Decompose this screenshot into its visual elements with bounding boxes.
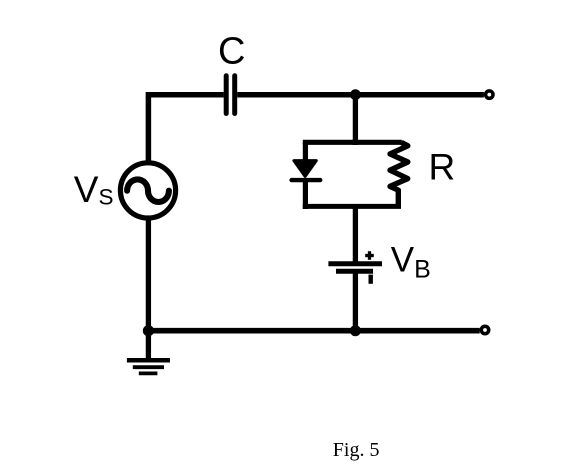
capacitor C plates [226, 76, 235, 114]
wire: top-left (Vs top to capacitor left plate) [148, 95, 223, 162]
battery VB positive plate (long) [328, 261, 382, 266]
source Vs circle [120, 163, 175, 218]
wire: diode branch lower [303, 181, 308, 209]
svg-text:Fig. 5: Fig. 5 [333, 439, 380, 461]
ground symbol bars [127, 360, 170, 373]
wire: source bottom to bottom rail [146, 220, 151, 331]
battery VB negative plate (short) [336, 269, 373, 274]
battery minus mark (vertical tick) [369, 275, 373, 284]
wire: capacitor right plate to output terminal (top) [237, 92, 484, 98]
wire: ground stem [146, 331, 151, 360]
svg-text:VB: VB [391, 240, 431, 283]
diode D (triangle, pointing down) [294, 161, 316, 177]
terminal: bottom output (open circle) [481, 326, 488, 333]
svg-text:VS: VS [74, 169, 114, 210]
wire: bottom rail [148, 328, 479, 334]
svg-text:R: R [429, 147, 456, 188]
source Vs sine wave [127, 179, 169, 202]
diode cathode bar [292, 178, 321, 182]
node: bottom-middle junction dot [350, 325, 361, 336]
resistor R (zigzag) [390, 142, 408, 208]
node: bottom-left junction dot [143, 325, 154, 336]
wire: diode branch upper [303, 142, 308, 160]
wire: box bottom to battery top plate [353, 207, 358, 264]
battery plus sign [365, 251, 374, 260]
wire: box top rail [303, 140, 402, 145]
terminal: top output (open circle) [486, 91, 493, 98]
wire: battery to bottom rail [353, 271, 358, 333]
node: top junction dot [350, 89, 361, 100]
wire: box bottom rail [303, 204, 401, 209]
wire: top junction down to parallel box [353, 95, 358, 145]
svg-text:C: C [218, 31, 245, 73]
